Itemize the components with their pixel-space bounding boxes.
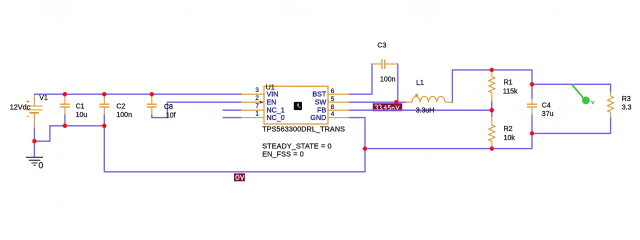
svg-text:37u: 37u	[542, 111, 554, 118]
svg-text:C2: C2	[116, 104, 125, 111]
svg-text:100n: 100n	[380, 77, 396, 84]
svg-text:V1: V1	[39, 95, 48, 102]
svg-text:BST: BST	[312, 90, 326, 98]
svg-text:10u: 10u	[76, 112, 88, 119]
svg-text:10f: 10f	[166, 112, 176, 119]
svg-text:R2: R2	[504, 126, 513, 133]
svg-text:3.3: 3.3	[622, 104, 632, 111]
svg-text:C4: C4	[542, 102, 551, 109]
svg-text:C8: C8	[164, 104, 173, 111]
svg-text:1: 1	[255, 111, 259, 118]
svg-text:7: 7	[255, 103, 259, 110]
svg-text:L1: L1	[416, 80, 424, 87]
svg-text:VIN: VIN	[267, 90, 279, 98]
svg-text:4: 4	[331, 111, 335, 118]
svg-text:100n: 100n	[116, 112, 132, 119]
svg-text:5: 5	[331, 96, 335, 103]
svg-text:8: 8	[331, 104, 335, 111]
svg-text:NC_0: NC_0	[267, 114, 285, 122]
svg-text:C1: C1	[76, 104, 85, 111]
svg-text:3.3uH: 3.3uH	[416, 108, 435, 115]
svg-text:R3: R3	[622, 96, 631, 103]
svg-text:3: 3	[255, 87, 259, 94]
svg-text:12Vdc: 12Vdc	[10, 103, 31, 112]
svg-text:10k: 10k	[504, 135, 516, 142]
svg-text:EN_FSS = 0: EN_FSS = 0	[262, 150, 304, 159]
svg-text:C3: C3	[377, 43, 386, 50]
svg-text:115k: 115k	[503, 89, 518, 96]
svg-text:2: 2	[255, 95, 259, 102]
svg-text:R1: R1	[504, 80, 513, 87]
svg-text:6: 6	[331, 88, 335, 95]
svg-text:TPS563300DRL_TRANS: TPS563300DRL_TRANS	[262, 125, 345, 134]
svg-text:SW: SW	[315, 98, 327, 106]
svg-text:EN: EN	[267, 98, 277, 106]
svg-text:GND: GND	[310, 114, 326, 122]
